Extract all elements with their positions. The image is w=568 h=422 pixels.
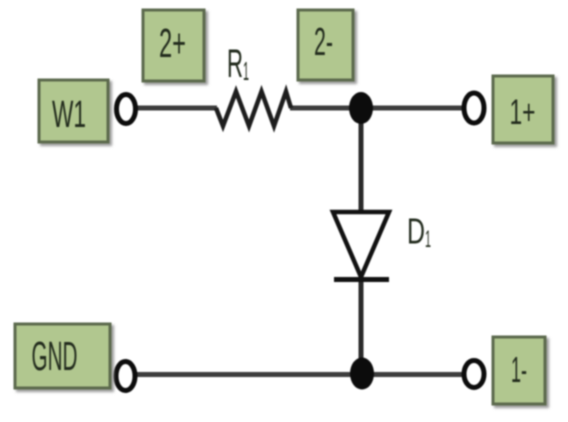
box 2+ <box>143 10 204 81</box>
box 1- <box>493 337 545 404</box>
terminal GND (open circle) <box>116 362 135 391</box>
resistor R1 <box>216 92 291 127</box>
svg-text:1+: 1+ <box>510 93 536 132</box>
box W1 <box>39 80 108 142</box>
svg-text:1-: 1- <box>511 349 527 390</box>
wire top: resistor to 1+ terminal <box>290 106 463 111</box>
terminal 1- (open circle) <box>464 361 484 388</box>
svg-text:2+: 2+ <box>159 20 186 66</box>
terminal W1 (open circle) <box>117 95 136 124</box>
svg-text:2-: 2- <box>314 21 333 64</box>
box 2- <box>298 10 353 80</box>
svg-text:R: R <box>227 42 243 86</box>
svg-text:D: D <box>407 211 425 252</box>
wire vertical: diode to bottom junction <box>359 277 364 374</box>
terminal 1+ (open circle) <box>464 93 484 123</box>
wire bottom: GND terminal to 1- terminal <box>137 372 463 377</box>
node: top junction <box>349 92 373 124</box>
svg-text:W1: W1 <box>52 94 86 136</box>
node: bottom junction <box>350 358 374 390</box>
box GND <box>15 324 110 388</box>
svg-text:1: 1 <box>243 56 249 86</box>
svg-text:GND: GND <box>32 333 78 379</box>
diode D1 <box>333 212 389 280</box>
wire vertical: top junction to diode <box>359 108 364 214</box>
wire top: W1 terminal to resistor <box>137 106 217 111</box>
box 1+ <box>493 76 553 143</box>
svg-text:1: 1 <box>425 226 431 253</box>
